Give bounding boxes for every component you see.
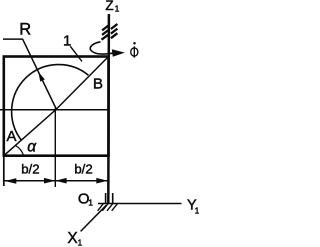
dim arrow mid-left [55, 178, 66, 184]
svg-text:B: B [93, 75, 103, 92]
vertical center line (down only) [54, 108, 56, 187]
svg-text:1: 1 [78, 237, 83, 247]
svg-text:1: 1 [115, 4, 120, 14]
radius arrow line [23, 39, 57, 109]
svg-text:1: 1 [195, 206, 199, 216]
rotation arrowhead [112, 49, 125, 56]
bottom support tick left [105, 193, 107, 203]
svg-text:1: 1 [88, 198, 93, 208]
R leader horizontal [3, 38, 23, 40]
radius arrowhead [38, 72, 44, 82]
svg-text:R: R [19, 21, 31, 39]
axis X1 line [81, 205, 107, 231]
dimension line b/2 [5, 180, 108, 182]
svg-text:b/2: b/2 [74, 162, 92, 177]
axis Z1 vertical line [107, 14, 110, 204]
svg-text:α: α [27, 138, 37, 155]
tick for label 1 [70, 46, 82, 61]
bearing hatch right group [111, 24, 118, 38]
svg-text:b/2: b/2 [21, 161, 39, 176]
diagonal A to top-right corner [4, 57, 109, 156]
rotation arrow curve [90, 42, 114, 54]
dim arrow right [96, 178, 107, 184]
label phi-dot (drawn glyph) [131, 46, 138, 57]
ground hatch at origin [98, 204, 118, 211]
bottom support tick right [112, 193, 114, 203]
svg-text:A: A [7, 128, 17, 145]
horizontal center line [0, 109, 109, 111]
left extension line [3, 157, 5, 186]
alpha angle arc [16, 146, 24, 156]
bearing hatch left group [102, 25, 109, 39]
circle arc R [12, 65, 89, 140]
axis Y1 line [98, 203, 182, 205]
square plate outline [4, 57, 109, 156]
dim arrow left [5, 178, 16, 184]
dim arrow mid-right [44, 178, 55, 184]
svg-text:Z: Z [105, 0, 113, 13]
